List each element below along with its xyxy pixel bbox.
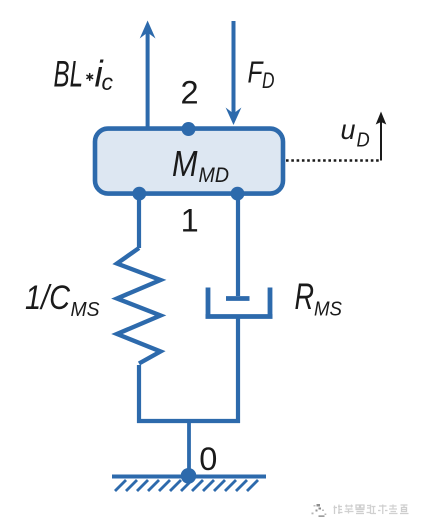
watermark text 扬声器设计与仿真 (glyph blocks) <box>334 505 409 515</box>
displacement arrow uD (black, up) <box>376 112 387 161</box>
label 1/CMS <box>25 279 100 321</box>
svg-text:BL: BL <box>54 54 84 95</box>
wire from damper cup to bottom rail <box>236 316 240 423</box>
svg-text:D: D <box>262 68 275 93</box>
damper cup <box>206 288 273 317</box>
svg-text:1: 1 <box>181 203 199 239</box>
wire from node 1 to spring <box>137 194 141 248</box>
ground post wire <box>187 421 191 476</box>
label M_MD <box>172 143 229 187</box>
mass M_MD box <box>95 129 283 194</box>
node 0 dot <box>181 468 197 484</box>
svg-text:c: c <box>102 69 114 95</box>
label FD <box>248 55 275 94</box>
spring 1/CMS zigzag <box>117 248 161 364</box>
force arrow FD (downward) <box>226 21 242 125</box>
ground hatching <box>115 480 258 491</box>
svg-text:u: u <box>341 114 356 145</box>
ground line <box>112 475 266 479</box>
force arrow BL*ic (upward) <box>140 21 156 130</box>
label RMS <box>295 276 343 321</box>
node 1 dot left <box>132 187 146 201</box>
watermark logo icon <box>312 504 327 517</box>
label ic of BL*ic <box>95 54 114 95</box>
label uD <box>341 114 370 151</box>
svg-text:M: M <box>172 143 198 184</box>
label BL*ic <box>54 54 84 95</box>
svg-text:1/C: 1/C <box>25 279 71 317</box>
svg-text:MS: MS <box>71 299 101 321</box>
wire from spring to bottom rail <box>137 365 141 423</box>
bottom rail wire <box>137 419 240 423</box>
svg-text:D: D <box>357 129 370 151</box>
svg-text:R: R <box>295 276 315 317</box>
wire from node 1 to damper piston <box>236 194 240 296</box>
svg-text:2: 2 <box>181 75 199 111</box>
svg-text:0: 0 <box>199 441 217 477</box>
svg-text:MS: MS <box>314 299 343 321</box>
damper piston plate <box>226 296 250 301</box>
multiplication star of BL*ic <box>87 74 93 81</box>
svg-text:MD: MD <box>199 164 230 187</box>
node 2 dot <box>182 122 196 136</box>
node 1 dot right <box>231 187 245 201</box>
dotted displacement reference line <box>286 159 379 162</box>
